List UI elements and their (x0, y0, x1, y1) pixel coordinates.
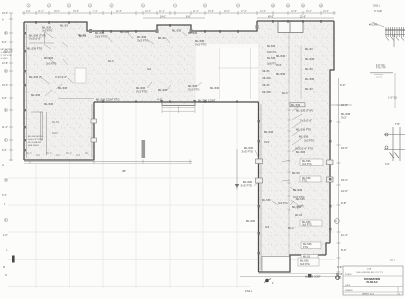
svg-text:3. UNO: 3. UNO (1, 58, 8, 60)
svg-text:3" CLR: 3" CLR (374, 10, 382, 13)
svg-text:11'-4": 11'-4" (2, 126, 8, 129)
svg-text:ML-536: ML-536 (262, 199, 271, 202)
lighter room area right of band (196, 44, 258, 101)
bottom dim ticks (30, 160, 190, 164)
svg-text:4'-0" SQ: 4'-0" SQ (376, 65, 385, 67)
svg-text:ML-536 FTG: ML-536 FTG (27, 47, 42, 51)
svg-text:ML-5: ML-5 (108, 60, 114, 63)
svg-text:ML-536: ML-536 (188, 84, 198, 88)
leader lines band (106, 32, 202, 90)
svg-text:3'x3'x1'-6": 3'x3'x1'-6" (300, 119, 312, 123)
south wall left wing (24, 159, 94, 161)
svg-text:S2.1: S2.1 (390, 260, 395, 262)
detail 2 base line (370, 72, 393, 74)
svg-text:3x3 FTG: 3x3 FTG (42, 29, 52, 33)
grid line horizontal 1 (8, 177, 335, 179)
pilaster courtyard wall a (91, 119, 97, 123)
svg-text:15'-8": 15'-8" (73, 11, 79, 13)
svg-text:M: M (3, 266, 5, 269)
svg-text:3'x3' FTG: 3'x3' FTG (242, 149, 253, 153)
below building texts (122, 169, 321, 293)
svg-text:12'-6": 12'-6" (145, 11, 151, 13)
svg-text:5'-4": 5'-4" (2, 194, 7, 197)
interior stud line left wing (46, 112, 48, 155)
grid line horizontal 2 (8, 204, 335, 206)
title block rule 1 (343, 275, 403, 277)
svg-text:ML-5: ML-5 (46, 152, 52, 155)
svg-text:ML-5: ML-5 (26, 152, 32, 155)
svg-text:H: H (5, 179, 7, 182)
courtyard west wall (93, 102, 95, 160)
grid line horizontal 3 (8, 231, 335, 233)
grid line vertical B (69, 104, 71, 288)
svg-text:3'x3' FTG: 3'x3' FTG (241, 183, 252, 187)
svg-text:ML-536: ML-536 (341, 112, 351, 116)
svg-text:6'-0": 6'-0" (340, 83, 345, 87)
svg-text:ML-536: ML-536 (244, 146, 254, 150)
svg-text:21'-6": 21'-6" (300, 17, 306, 19)
west wall left wing (23, 22, 25, 160)
svg-text:3'x3'x1'-6": 3'x3'x1'-6" (29, 37, 41, 41)
svg-text:14'-6": 14'-6" (260, 11, 266, 13)
svg-text:SCALE: SCALE (345, 273, 352, 276)
grid line vertical D (135, 104, 137, 288)
svg-text:FTG: FTG (303, 246, 308, 249)
left margin bubbles and ticks (2, 12, 15, 277)
svg-text:ML-53: ML-53 (295, 214, 303, 217)
grid line vertical E (169, 104, 171, 288)
svg-text:ML-536: ML-536 (305, 57, 315, 61)
courtyard line arrow (235, 184, 239, 188)
svg-text:ML-536: ML-536 (299, 135, 309, 139)
west wall right wing (258, 102, 260, 272)
partition line left wing upper (44, 32, 46, 43)
svg-text:18'-0": 18'-0" (54, 11, 60, 13)
svg-text:ML-5: ML-5 (336, 272, 343, 276)
svg-text:12'-8": 12'-8" (2, 62, 8, 65)
svg-text:DATE: DATE (345, 284, 351, 287)
svg-text:15'-4": 15'-4" (306, 11, 312, 13)
white room bottom right wing (262, 257, 290, 272)
svg-text:45°: 45° (122, 169, 126, 173)
svg-text:7'-4": 7'-4" (93, 11, 98, 13)
svg-text:ML-536: ML-536 (264, 130, 274, 134)
svg-text:2. TYP FTG: 2. TYP FTG (1, 55, 12, 57)
svg-text:ML-536: ML-536 (120, 30, 130, 34)
svg-text:6'-8": 6'-8" (337, 265, 342, 269)
svg-text:6'-8": 6'-8" (186, 17, 191, 19)
section cut glyph bottom (264, 279, 274, 286)
svg-text:DRAWN: DRAWN (345, 289, 353, 292)
top dimension line (22, 12, 336, 14)
room line band vertical (219, 48, 221, 99)
inner wall line right wing west (260, 104, 262, 270)
title block rule 2 (343, 286, 403, 288)
svg-text:ML-53: ML-53 (263, 70, 270, 73)
svg-text:ML-536: ML-536 (263, 77, 272, 80)
svg-text:ML-53: ML-53 (158, 36, 166, 40)
east wall (330, 21, 334, 243)
bottom dimension line left wing (24, 161, 192, 163)
left dimension ticks (9, 13, 13, 160)
bump dimension lines (162, 106, 195, 113)
detail 2 column line (394, 73, 396, 108)
pilaster east wall b (327, 177, 334, 182)
svg-text:KEY NOTES: KEY NOTES (1, 49, 13, 51)
band annotation cluster courtyard edge (96, 84, 220, 103)
svg-text:3/A5.1: 3/A5.1 (373, 5, 381, 8)
title block rule 3 (343, 291, 403, 293)
left wing note block (28, 136, 43, 147)
svg-text:ML-536: ML-536 (267, 45, 276, 48)
svg-text:ML-536: ML-536 (195, 39, 205, 43)
svg-text:12'-0": 12'-0" (341, 189, 348, 193)
svg-text:11'-4": 11'-4" (341, 233, 348, 237)
svg-text:ML-536: ML-536 (44, 102, 54, 106)
svg-text:ML-53: ML-53 (60, 24, 68, 28)
pilaster west wall b (256, 178, 263, 183)
svg-text:3x3 FTG: 3x3 FTG (267, 51, 276, 54)
svg-text:3x3: 3x3 (76, 154, 81, 157)
svg-text:1'-6" SQ: 1'-6" SQ (388, 97, 397, 100)
svg-text:ML-53: ML-53 (52, 121, 59, 124)
column dots courtyard wall (102, 101, 238, 103)
vestibule notch top wall (278, 22, 303, 33)
svg-text:ML-536: ML-536 (172, 29, 182, 33)
svg-text:ML-53: ML-53 (292, 171, 300, 175)
detail 2 ticks (374, 75, 383, 78)
svg-text:3'x3' FTG: 3'x3' FTG (137, 38, 148, 42)
svg-text:3x3 FTG: 3x3 FTG (304, 139, 314, 143)
svg-text:ML-536: ML-536 (267, 57, 276, 60)
corridor wall left wing (58, 98, 94, 100)
svg-text:3x3: 3x3 (265, 226, 270, 229)
svg-text:ML-536: ML-536 (263, 91, 272, 94)
svg-text:ML-536: ML-536 (296, 150, 306, 154)
leader lines right wing (254, 106, 302, 205)
svg-text:3'x3' FTG: 3'x3' FTG (136, 89, 147, 93)
svg-text:3x3 FTG: 3x3 FTG (278, 202, 288, 205)
south wall right wing (259, 255, 327, 272)
svg-text:49'-0": 49'-0" (268, 17, 274, 19)
corridor wall right wing (300, 45, 302, 99)
title block right divider (397, 287, 399, 295)
svg-text:11'-4": 11'-4" (38, 11, 44, 13)
title block outer box (343, 266, 403, 295)
courtyard leader line (236, 149, 238, 190)
svg-text:3x3 FTG: 3x3 FTG (302, 224, 312, 227)
right wing west wall label column (263, 45, 277, 94)
svg-text:11'-4": 11'-4" (193, 11, 199, 13)
east side dimension texts (334, 83, 350, 279)
column mark band c (190, 29, 193, 33)
column mark band d (256, 25, 259, 29)
svg-text:22'-8": 22'-8" (116, 11, 122, 13)
svg-text:4'-0": 4'-0" (3, 234, 8, 237)
svg-text:ML-536: ML-536 (44, 56, 54, 60)
annotation row right wing mid (262, 198, 305, 230)
svg-text:15'-4": 15'-4" (341, 178, 348, 182)
pilaster courtyard wall b (91, 138, 97, 142)
column mark band b (156, 29, 159, 33)
svg-text:3x3 FTG: 3x3 FTG (46, 62, 56, 66)
svg-text:ML-5: ML-5 (288, 227, 294, 230)
pilaster west wall a (256, 159, 263, 164)
svg-text:ML-536 CONT: ML-536 CONT (305, 276, 321, 279)
svg-text:3'x3': 3'x3' (341, 115, 347, 119)
svg-text:ML-536: ML-536 (95, 31, 105, 35)
pilaster east wall a (327, 160, 334, 165)
svg-text:ML-536 CONT: ML-536 CONT (198, 99, 216, 103)
grid line horizontal 4 (8, 259, 335, 261)
column dots west wall (24, 32, 26, 151)
svg-text:SEE 3/S5.1: SEE 3/S5.1 (28, 145, 40, 147)
grid line vertical A (35, 163, 37, 288)
secondary top dimension line (143, 17, 205, 19)
bottom right dim line 2 (240, 276, 341, 278)
svg-text:ML-536: ML-536 (305, 77, 315, 81)
inner wall line courtyard west (91, 104, 93, 158)
svg-text:ML-536: ML-536 (276, 72, 286, 76)
svg-text:1400 GRIFFIN RD CITY TX: 1400 GRIFFIN RD CITY TX (356, 272, 383, 274)
svg-text:FTG TYP: FTG TYP (376, 68, 386, 70)
svg-text:ML-536: ML-536 (58, 86, 68, 90)
top grid bubbles (27, 4, 323, 8)
column dots right wing walls (258, 120, 332, 254)
courtyard wall bump (162, 102, 195, 106)
svg-text:TYP: TYP (395, 123, 400, 126)
svg-text:SHEET S2.1: SHEET S2.1 (362, 294, 375, 296)
svg-text:#5 DWL: #5 DWL (369, 24, 379, 27)
svg-text:G: G (2, 164, 4, 167)
svg-text:24'-0": 24'-0" (2, 12, 8, 15)
svg-text:FTG: FTG (302, 180, 307, 183)
svg-text:3x3 FTG: 3x3 FTG (300, 263, 310, 266)
svg-text:3x3: 3x3 (36, 154, 41, 157)
svg-text:ML-536: ML-536 (276, 54, 286, 58)
svg-text:3'x3': 3'x3' (276, 63, 282, 67)
grid line vertical C (102, 104, 104, 288)
svg-text:ML-536: ML-536 (243, 180, 253, 184)
svg-text:8'-0": 8'-0" (341, 248, 346, 252)
svg-text:3'x3': 3'x3' (264, 140, 270, 144)
svg-text:ML-53: ML-53 (305, 47, 313, 51)
svg-text:3x3: 3x3 (56, 154, 61, 157)
svg-text:PLAN S-2: PLAN S-2 (366, 280, 378, 284)
svg-text:W/ #5 EA WY: W/ #5 EA WY (28, 141, 42, 144)
svg-text:3x3 FTG: 3x3 FTG (302, 163, 312, 166)
svg-text:16'-0": 16'-0" (341, 146, 348, 150)
svg-text:ML-5: ML-5 (282, 92, 288, 95)
left wing annotation cluster (27, 24, 68, 136)
room line band (218, 67, 258, 69)
svg-text:ML-53: ML-53 (305, 87, 313, 91)
pier bar south of left wing (142, 140, 146, 158)
svg-text:ML-536 CONT FTG: ML-536 CONT FTG (96, 98, 120, 102)
svg-text:3x3 F: 3x3 F (52, 132, 59, 135)
svg-text:ML-536: ML-536 (291, 103, 301, 107)
svg-text:ML-536 FTG: ML-536 FTG (296, 128, 311, 132)
svg-text:9'-8": 9'-8" (2, 97, 7, 100)
right wing interior boxed labels (298, 159, 323, 266)
detail 1 beam section (385, 27, 405, 47)
svg-text:12'-8": 12'-8" (291, 11, 297, 13)
grid line vertical G (236, 104, 238, 288)
svg-text:ML-536: ML-536 (188, 31, 198, 35)
band annotation cluster west (78, 29, 206, 47)
svg-text:9'-8": 9'-8" (26, 11, 31, 13)
footing labels along south wall (26, 152, 89, 157)
svg-text:ML-536 (TYP): ML-536 (TYP) (296, 109, 313, 113)
svg-text:ML-536: ML-536 (293, 188, 303, 192)
svg-text:17'-0": 17'-0" (241, 11, 247, 13)
svg-text:15'-8": 15'-8" (208, 11, 214, 13)
svg-text:3'x3' FTG: 3'x3' FTG (188, 87, 199, 91)
svg-text:FTG: FTG (336, 275, 341, 279)
svg-text:ML-536: ML-536 (158, 88, 168, 92)
svg-text:ML-536 (T): ML-536 (T) (29, 75, 42, 79)
interior wall left wing (31, 111, 42, 113)
north wall stair bump (157, 25, 191, 31)
east wall lower step (326, 243, 330, 255)
svg-text:10'-0": 10'-0" (323, 11, 329, 13)
svg-text:ML-53: ML-53 (263, 84, 270, 87)
svg-text:3'x3'x1'-6" FTG: 3'x3'x1'-6" FTG (295, 147, 313, 151)
svg-text:ML-536 NOTE: ML-536 NOTE (28, 136, 43, 138)
leader lines left wing (42, 32, 73, 96)
building footprint stipple fill (24, 21, 334, 272)
svg-text:16'-0": 16'-0" (224, 11, 230, 13)
svg-text:3'x3' FTG: 3'x3' FTG (95, 34, 106, 38)
grid line vertical F (202, 104, 204, 288)
svg-text:3'x3' FTG: 3'x3' FTG (195, 42, 206, 46)
inner wall line west (26, 24, 28, 158)
svg-text:ML-536: ML-536 (31, 93, 41, 97)
extra annotation specks (79, 35, 303, 229)
svg-text:ML-536: ML-536 (137, 35, 147, 39)
svg-text:4'-0"x4'-0": 4'-0"x4'-0" (55, 75, 67, 79)
top dimension texts (26, 11, 329, 19)
column mark band a (89, 29, 92, 33)
svg-text:JOB: JOB (367, 269, 372, 271)
svg-text:1/S2.1: 1/S2.1 (245, 290, 253, 293)
right wing interior annotations (264, 103, 314, 209)
column dots north wall (35, 20, 322, 33)
grid line horizontal 5 (8, 286, 250, 288)
svg-text:24'-0": 24'-0" (160, 17, 166, 19)
annotations left of right wing (241, 146, 256, 223)
east horizontal dim (330, 104, 352, 106)
north wall mid section (191, 21, 257, 31)
detail 3 footing plan (384, 127, 405, 161)
east dimension line (338, 78, 340, 280)
svg-text:ML-53: ML-53 (305, 67, 313, 71)
bottom right dim line (258, 273, 340, 275)
north wall east section (257, 20, 334, 22)
svg-text:ML-536: ML-536 (246, 219, 256, 223)
top dimension ticks (24, 11, 334, 15)
svg-text:ML-5: ML-5 (66, 152, 72, 155)
courtyard north wall (94, 101, 259, 103)
svg-text:ML-536: ML-536 (210, 86, 220, 90)
svg-text:9'-8": 9'-8" (341, 201, 346, 205)
left dimension line (10, 13, 12, 161)
partition line left wing horizontal (29, 42, 54, 44)
svg-text:8'-0": 8'-0" (2, 41, 7, 44)
svg-text:1. SEE S5.1: 1. SEE S5.1 (1, 52, 13, 54)
svg-text:D: D (5, 70, 7, 73)
svg-text:ML-536: ML-536 (136, 86, 146, 90)
svg-text:6'-0": 6'-0" (2, 149, 7, 152)
svg-text:3x3: 3x3 (147, 68, 152, 71)
left margin note block (1, 49, 13, 60)
band labels near x282 (276, 47, 315, 91)
svg-text:N: N (5, 274, 7, 277)
footing bar left wing (41, 112, 43, 140)
svg-text:16'-0": 16'-0" (2, 84, 8, 87)
centerline right wing (288, 32, 290, 271)
detail 1 leader (372, 22, 384, 27)
east dim ticks (337, 105, 341, 272)
svg-text:11'-2": 11'-2" (159, 11, 165, 13)
svg-text:ML-53: ML-53 (79, 35, 87, 38)
north wall west section (24, 22, 157, 31)
svg-text:22'-8": 22'-8" (341, 103, 348, 107)
svg-text:3x3x1'-6" FTG: 3x3x1'-6" FTG (28, 139, 42, 141)
svg-text:3'-0": 3'-0" (385, 163, 390, 166)
svg-text:ML-536: ML-536 (296, 198, 305, 201)
white room opening left wing (75, 68, 86, 83)
